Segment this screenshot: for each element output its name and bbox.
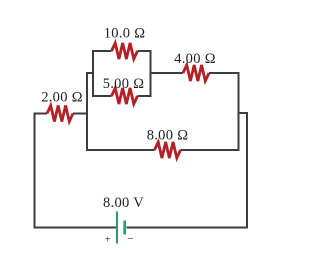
resistor R=4.00 ohm zigzag [183, 65, 209, 81]
wire: 2.00 ohm wire right segment to node A bus [73, 113, 87, 115]
svg-text:8.00 Ω: 8.00 Ω [147, 128, 189, 144]
battery positive long plate [116, 212, 118, 244]
wire: 4.00 ohm right segment, down right-mid vertical, to 8.00 ohm wire right end [181, 73, 239, 150]
svg-text:+: + [105, 234, 111, 246]
svg-text:5.00 Ω: 5.00 Ω [103, 76, 145, 92]
resistor R=5.00 ohm zigzag (bottom of parallel box) [112, 88, 138, 104]
svg-text:4.00 Ω: 4.00 Ω [174, 51, 216, 67]
svg-text:−: − [127, 233, 133, 245]
wire: bottom right + right outer edge up to top-right stub node [127, 113, 248, 228]
wire: box mid-right to 4.00 ohm resistor [151, 72, 184, 74]
svg-text:8.00 V: 8.00 V [103, 195, 144, 211]
svg-text:10.0 Ω: 10.0 Ω [104, 26, 146, 42]
wire: parallel box right half (right edge of 10/5 ohm box) [138, 51, 151, 96]
wire: left outer loop (from battery + terminal up left side to 2.00 ohm wire) [35, 114, 117, 228]
wire: node A vertical bus with stub into parallel box left side, down to 8.00 ohm wire [87, 73, 155, 150]
svg-text:2.00 Ω: 2.00 Ω [41, 90, 83, 106]
resistor R=10.0 ohm zigzag (top of parallel box) [112, 43, 138, 59]
wire: parallel box left half (left edge of 10/5 ohm box) [93, 51, 112, 96]
battery negative short plate [123, 221, 126, 235]
resistor R=8.00 ohm zigzag [155, 142, 181, 158]
resistor R=2.00 ohm zigzag [47, 106, 73, 122]
